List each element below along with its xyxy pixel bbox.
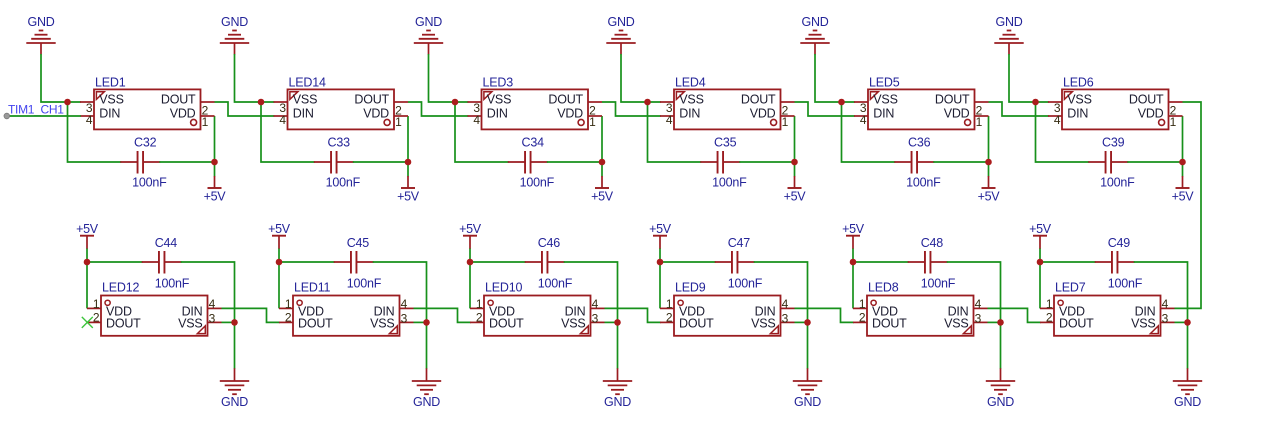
- pin 3 VSS of LED5: [854, 92, 898, 115]
- svg-text:2: 2: [93, 310, 100, 324]
- svg-text:100nF: 100nF: [906, 176, 941, 190]
- svg-text:GND: GND: [604, 395, 631, 409]
- IC LED14 body: [288, 89, 395, 129]
- svg-text:1: 1: [782, 115, 789, 129]
- svg-text:100nF: 100nF: [326, 176, 361, 190]
- wire +5V node to C49 left lead: [1040, 261, 1096, 263]
- svg-text:1: 1: [1046, 297, 1053, 311]
- pin 4 DIN of LED12: [182, 297, 222, 318]
- svg-text:DOUT: DOUT: [935, 92, 970, 106]
- wire GND net down to C39 left lead: [1036, 102, 1090, 162]
- svg-text:VDD: VDD: [750, 106, 776, 120]
- wire C33 right lead to +5V node: [353, 161, 408, 163]
- svg-text:100nF: 100nF: [1108, 277, 1143, 291]
- capacitor C32: [120, 151, 160, 174]
- svg-text:DIN: DIN: [873, 106, 894, 120]
- svg-text:VDD: VDD: [170, 106, 196, 120]
- svg-text:C44: C44: [155, 236, 178, 250]
- svg-text:+5V: +5V: [842, 222, 865, 236]
- capacitor C34: [508, 151, 548, 174]
- svg-text:VSS: VSS: [873, 92, 897, 106]
- pin 3 VSS of LED8: [944, 311, 987, 330]
- svg-text:4: 4: [1162, 297, 1169, 311]
- pin 4 DIN of LED1: [80, 106, 120, 127]
- wire GND net down to C35 left lead: [648, 102, 702, 162]
- pin 2 DOUT of LED11: [279, 310, 333, 330]
- svg-text:+5V: +5V: [591, 189, 614, 203]
- svg-text:2: 2: [1046, 310, 1053, 324]
- power symbol +5V (LED8 unit): [842, 222, 865, 249]
- wire VDD pin of LED3 down to +5V node: [601, 116, 603, 177]
- IC LED12 body: [101, 296, 208, 336]
- svg-text:+5V: +5V: [1029, 222, 1052, 236]
- svg-text:+5V: +5V: [649, 222, 672, 236]
- svg-text:VSS: VSS: [293, 92, 317, 106]
- svg-text:LED8: LED8: [868, 281, 899, 295]
- svg-text:GND: GND: [221, 395, 248, 409]
- power symbol +5V (LED14 unit): [397, 176, 420, 203]
- pin 4 DIN of LED3: [468, 106, 508, 127]
- wire +5V node to C44 left lead: [87, 261, 143, 263]
- power symbol +5V (LED10 unit): [459, 222, 482, 249]
- svg-text:LED5: LED5: [869, 76, 900, 90]
- junction GND net at LED9: [804, 319, 811, 326]
- svg-text:C33: C33: [328, 136, 351, 150]
- junction GND net at LED5: [838, 99, 845, 106]
- svg-text:100nF: 100nF: [921, 277, 956, 291]
- wire DOUT LED4 to DIN LED5: [795, 102, 855, 116]
- wire DOUT LED6 down to DIN LED7: [1175, 102, 1202, 308]
- pin 2 DOUT of LED3: [548, 92, 602, 117]
- wire GND junction down to ground symbol (LED7): [1187, 322, 1189, 368]
- svg-text:GND: GND: [987, 395, 1014, 409]
- pin 1 VDD of LED10: [470, 297, 515, 318]
- pin 3 VSS of LED6: [1048, 92, 1092, 115]
- junction GND net at LED1: [64, 99, 71, 106]
- pin 4 DIN of LED11: [374, 297, 414, 318]
- pin 2 DOUT of LED12: [87, 310, 141, 330]
- svg-text:DOUT: DOUT: [106, 317, 141, 331]
- power symbol GND (LED11 unit): [412, 368, 441, 409]
- svg-text:+5V: +5V: [459, 222, 482, 236]
- pin 4 DIN of LED6: [1048, 106, 1088, 127]
- svg-text:VSS: VSS: [1131, 317, 1155, 331]
- svg-text:1: 1: [93, 297, 100, 311]
- svg-text:GND: GND: [221, 15, 248, 29]
- pin 1 VDD of LED14: [363, 106, 408, 129]
- svg-text:+5V: +5V: [1172, 189, 1195, 203]
- pin 2 DOUT of LED6: [1129, 92, 1183, 117]
- svg-text:3: 3: [975, 311, 982, 325]
- power symbol GND (LED3 unit): [414, 15, 443, 55]
- wire GND to VSS pin of LED1: [41, 54, 81, 102]
- svg-text:TIM1_CH1: TIM1_CH1: [8, 102, 64, 116]
- svg-text:2: 2: [859, 310, 866, 324]
- wire DOUT LED7 to DIN LED8: [988, 308, 1041, 322]
- svg-text:C36: C36: [908, 136, 931, 150]
- svg-text:VSS: VSS: [751, 317, 775, 331]
- wire GND junction down to ground symbol (LED8): [1000, 322, 1002, 368]
- svg-text:VSS: VSS: [99, 92, 123, 106]
- wire GND to VSS pin of LED4: [621, 54, 661, 102]
- wire VSS pin of LED9 to GND junction: [795, 321, 808, 323]
- junction +5V node at LED5: [985, 159, 992, 166]
- svg-text:100nF: 100nF: [1100, 176, 1135, 190]
- svg-text:GND: GND: [413, 395, 440, 409]
- wire C45 right lead down to VSS junction: [373, 262, 427, 322]
- wire DOUT LED9 to DIN LED10: [605, 308, 661, 322]
- wire C32 right lead to +5V node: [159, 161, 214, 163]
- pin 2 DOUT of LED4: [741, 92, 795, 117]
- svg-text:GND: GND: [415, 15, 442, 29]
- pin 2 DOUT of LED9: [660, 310, 714, 330]
- svg-text:GND: GND: [802, 15, 829, 29]
- pin 3 VSS of LED9: [751, 311, 794, 330]
- svg-text:1: 1: [395, 115, 402, 129]
- svg-text:4: 4: [209, 297, 216, 311]
- svg-text:LED12: LED12: [102, 281, 139, 295]
- capacitor C33: [314, 151, 354, 174]
- svg-text:LED10: LED10: [485, 281, 522, 295]
- pin 2 DOUT of LED5: [935, 92, 989, 117]
- power symbol GND (LED6 unit): [994, 15, 1023, 55]
- pin 1 VDD of LED11: [279, 297, 324, 318]
- svg-text:100nF: 100nF: [712, 176, 747, 190]
- svg-text:C48: C48: [921, 236, 944, 250]
- junction GND net at LED7: [1184, 319, 1191, 326]
- wire DOUT LED8 to DIN LED9: [795, 308, 854, 322]
- wire VSS pin of LED8 to GND junction: [988, 321, 1001, 323]
- pin 1 VDD of LED1: [170, 106, 215, 129]
- svg-text:DOUT: DOUT: [679, 317, 714, 331]
- wire DOUT LED3 to DIN LED4: [602, 102, 661, 116]
- svg-text:4: 4: [86, 113, 93, 127]
- svg-text:1: 1: [859, 297, 866, 311]
- svg-text:DOUT: DOUT: [298, 317, 333, 331]
- wire GND junction down to ground symbol (LED11): [426, 322, 428, 368]
- svg-text:LED7: LED7: [1055, 281, 1086, 295]
- wire GND to VSS pin of LED5: [815, 54, 855, 102]
- svg-text:100nF: 100nF: [347, 277, 382, 291]
- power symbol GND (LED9 unit): [793, 368, 822, 409]
- capacitor C45: [334, 251, 374, 274]
- power symbol +5V (LED7 unit): [1029, 222, 1052, 249]
- IC LED8 body: [867, 296, 974, 336]
- svg-text:4: 4: [860, 113, 867, 127]
- IC LED1 body: [94, 89, 201, 129]
- wire +5V node to C48 left lead: [853, 261, 909, 263]
- svg-text:DOUT: DOUT: [548, 92, 583, 106]
- svg-text:DOUT: DOUT: [1129, 92, 1164, 106]
- capacitor C47: [715, 251, 755, 274]
- svg-text:VSS: VSS: [487, 92, 511, 106]
- wire +5V node down to VDD pin of LED7: [1039, 249, 1041, 309]
- svg-text:LED11: LED11: [294, 281, 331, 295]
- wire C44 right lead down to VSS junction: [181, 262, 235, 322]
- svg-text:C35: C35: [714, 136, 737, 150]
- svg-text:DIN: DIN: [293, 106, 314, 120]
- junction +5V node at LED6: [1179, 159, 1186, 166]
- svg-text:C47: C47: [728, 236, 751, 250]
- svg-text:+5V: +5V: [978, 189, 1001, 203]
- unconnected wire endpoint: [4, 113, 10, 119]
- svg-text:100nF: 100nF: [155, 277, 190, 291]
- capacitor C44: [142, 251, 182, 274]
- svg-text:GND: GND: [608, 15, 635, 29]
- svg-text:C45: C45: [347, 236, 370, 250]
- svg-text:VDD: VDD: [944, 106, 970, 120]
- svg-text:VSS: VSS: [178, 317, 202, 331]
- svg-text:4: 4: [592, 297, 599, 311]
- junction +5V node at LED12: [84, 259, 91, 266]
- svg-text:DOUT: DOUT: [1059, 317, 1094, 331]
- wire +5V node down to VDD pin of LED12: [86, 249, 88, 309]
- svg-text:100nF: 100nF: [132, 176, 167, 190]
- power symbol +5V (LED5 unit): [978, 176, 1001, 203]
- power symbol GND (LED14 unit): [220, 15, 249, 55]
- IC LED4 body: [674, 89, 781, 129]
- capacitor C46: [525, 251, 565, 274]
- wire C34 right lead to +5V node: [547, 161, 602, 163]
- svg-text:+5V: +5V: [204, 189, 227, 203]
- svg-text:VSS: VSS: [561, 317, 585, 331]
- wire DOUT LED10 to DIN LED11: [414, 308, 471, 322]
- svg-text:VSS: VSS: [1067, 92, 1091, 106]
- svg-text:LED3: LED3: [483, 76, 514, 90]
- svg-text:2: 2: [476, 310, 483, 324]
- power symbol GND (LED4 unit): [606, 15, 635, 55]
- svg-text:+5V: +5V: [268, 222, 291, 236]
- pin 1 VDD of LED7: [1040, 297, 1085, 318]
- pin 1 VDD of LED3: [557, 106, 602, 129]
- wire TIM1_CH1 to DIN pin of LED1: [7, 115, 81, 117]
- svg-text:VSS: VSS: [944, 317, 968, 331]
- wire GND junction down to ground symbol (LED10): [617, 322, 619, 368]
- power symbol GND (LED10 unit): [603, 368, 632, 409]
- junction +5V node at LED10: [467, 259, 474, 266]
- junction +5V node at LED1: [211, 159, 218, 166]
- svg-text:VSS: VSS: [679, 92, 703, 106]
- power symbol GND (LED8 unit): [986, 368, 1015, 409]
- IC LED10 body: [484, 296, 591, 336]
- svg-text:3: 3: [592, 311, 599, 325]
- svg-text:2: 2: [285, 310, 292, 324]
- capacitor C36: [894, 151, 934, 174]
- capacitor C39: [1088, 151, 1128, 174]
- pin 3 VSS of LED14: [274, 92, 318, 115]
- power symbol +5V (LED3 unit): [591, 176, 614, 203]
- junction GND net at LED4: [644, 99, 651, 106]
- pin 2 DOUT of LED8: [853, 310, 907, 330]
- pin 4 DIN of LED7: [1135, 297, 1175, 318]
- svg-text:DOUT: DOUT: [872, 317, 907, 331]
- svg-text:LED6: LED6: [1063, 76, 1094, 90]
- svg-text:4: 4: [473, 113, 480, 127]
- junction +5V node at LED3: [599, 159, 606, 166]
- svg-text:1: 1: [202, 115, 209, 129]
- wire +5V node down to VDD pin of LED10: [469, 249, 471, 309]
- svg-text:VSS: VSS: [370, 317, 394, 331]
- pin 3 VSS of LED1: [80, 92, 124, 115]
- junction GND net at LED3: [452, 99, 459, 106]
- wire DOUT LED14 to DIN LED3: [408, 102, 468, 116]
- junction GND net at LED11: [423, 319, 430, 326]
- svg-text:DOUT: DOUT: [741, 92, 776, 106]
- wire +5V node down to VDD pin of LED8: [852, 249, 854, 309]
- IC LED11 body: [293, 296, 400, 336]
- svg-text:+5V: +5V: [76, 222, 99, 236]
- wire C47 right lead down to VSS junction: [754, 262, 808, 322]
- power symbol +5V (LED11 unit): [268, 222, 291, 249]
- pin 4 DIN of LED10: [565, 297, 605, 318]
- junction GND net at LED12: [231, 319, 238, 326]
- svg-text:+5V: +5V: [397, 189, 420, 203]
- pin 2 DOUT of LED7: [1040, 310, 1094, 330]
- wire C48 right lead down to VSS junction: [947, 262, 1001, 322]
- svg-text:1: 1: [589, 115, 596, 129]
- wire VSS pin of LED10 to GND junction: [605, 321, 618, 323]
- pin 4 DIN of LED8: [948, 297, 988, 318]
- svg-text:GND: GND: [1174, 395, 1201, 409]
- svg-text:VDD: VDD: [363, 106, 389, 120]
- svg-text:4: 4: [975, 297, 982, 311]
- svg-text:1: 1: [285, 297, 292, 311]
- junction GND net at LED8: [997, 319, 1004, 326]
- power symbol GND (LED7 unit): [1173, 368, 1202, 409]
- pin 3 VSS of LED12: [178, 311, 221, 330]
- junction +5V node at LED7: [1037, 259, 1044, 266]
- wire GND to VSS pin of LED3: [429, 54, 469, 102]
- power symbol GND (LED5 unit): [800, 15, 829, 55]
- wire GND junction down to ground symbol (LED9): [807, 322, 809, 368]
- wire C46 right lead down to VSS junction: [564, 262, 618, 322]
- svg-text:4: 4: [782, 297, 789, 311]
- junction +5V node at LED14: [405, 159, 412, 166]
- wire C39 right lead to +5V node: [1127, 161, 1182, 163]
- wire VSS pin of LED12 to GND junction: [222, 321, 235, 323]
- svg-text:100nF: 100nF: [538, 277, 573, 291]
- svg-text:1: 1: [666, 297, 673, 311]
- wire VDD pin of LED1 down to +5V node: [214, 116, 216, 177]
- svg-text:VDD: VDD: [557, 106, 583, 120]
- pin 1 VDD of LED6: [1138, 106, 1183, 129]
- power symbol GND (LED12 unit): [220, 368, 249, 409]
- wire +5V node down to VDD pin of LED9: [659, 249, 661, 309]
- power symbol +5V (LED9 unit): [649, 222, 672, 249]
- wire GND junction down to ground symbol (LED12): [234, 322, 236, 368]
- svg-text:3: 3: [209, 311, 216, 325]
- wire +5V node to C47 left lead: [660, 261, 716, 263]
- pin 2 DOUT of LED14: [354, 92, 408, 117]
- svg-text:3: 3: [1162, 311, 1169, 325]
- svg-text:4: 4: [1054, 113, 1061, 127]
- junction GND net at LED10: [614, 319, 621, 326]
- capacitor C48: [908, 251, 948, 274]
- pin 4 DIN of LED5: [854, 106, 894, 127]
- wire C36 right lead to +5V node: [933, 161, 988, 163]
- wire VSS pin of LED11 to GND junction: [414, 321, 427, 323]
- IC LED3 body: [482, 89, 589, 129]
- IC LED6 body: [1062, 89, 1169, 129]
- wire DOUT LED1 to DIN LED14: [215, 102, 275, 116]
- power symbol +5V (LED4 unit): [784, 176, 807, 203]
- pin 3 VSS of LED11: [370, 311, 413, 330]
- svg-text:DIN: DIN: [487, 106, 508, 120]
- svg-text:4: 4: [666, 113, 673, 127]
- svg-text:DOUT: DOUT: [161, 92, 196, 106]
- pin 1 VDD of LED4: [750, 106, 795, 129]
- pin 1 VDD of LED12: [87, 297, 132, 318]
- pin 3 VSS of LED4: [660, 92, 704, 115]
- wire +5V node down to VDD pin of LED11: [278, 249, 280, 309]
- junction +5V node at LED4: [791, 159, 798, 166]
- svg-text:2: 2: [666, 310, 673, 324]
- capacitor C49: [1095, 251, 1135, 274]
- wire +5V node to C46 left lead: [470, 261, 526, 263]
- svg-text:3: 3: [401, 311, 408, 325]
- power symbol GND (LED1 unit): [26, 15, 55, 55]
- wire GND net down to C33 left lead: [261, 102, 315, 162]
- svg-text:C49: C49: [1108, 236, 1131, 250]
- pin 3 VSS of LED7: [1131, 311, 1174, 330]
- pin 3 VSS of LED10: [561, 311, 604, 330]
- IC LED5 body: [868, 89, 975, 129]
- svg-text:DIN: DIN: [1067, 106, 1088, 120]
- no-connect flag on DOUT of LED12: [82, 317, 93, 328]
- wire GND net down to C34 left lead: [455, 102, 509, 162]
- pin 1 VDD of LED5: [944, 106, 989, 129]
- svg-text:C39: C39: [1102, 136, 1125, 150]
- svg-text:100nF: 100nF: [728, 277, 763, 291]
- svg-text:C34: C34: [522, 136, 545, 150]
- junction +5V node at LED11: [276, 259, 283, 266]
- wire VDD pin of LED5 down to +5V node: [988, 116, 990, 177]
- wire +5V node to C45 left lead: [279, 261, 335, 263]
- svg-text:+5V: +5V: [784, 189, 807, 203]
- IC LED7 body: [1054, 296, 1161, 336]
- svg-text:LED4: LED4: [675, 76, 706, 90]
- wire VSS pin of LED7 to GND junction: [1175, 321, 1188, 323]
- power symbol +5V (LED6 unit): [1172, 176, 1195, 203]
- svg-text:C46: C46: [538, 236, 561, 250]
- wire VDD pin of LED6 down to +5V node: [1182, 116, 1184, 177]
- svg-text:VDD: VDD: [1138, 106, 1164, 120]
- svg-text:4: 4: [401, 297, 408, 311]
- svg-text:3: 3: [782, 311, 789, 325]
- pin 3 VSS of LED3: [468, 92, 512, 115]
- svg-text:DIN: DIN: [679, 106, 700, 120]
- wire VDD pin of LED4 down to +5V node: [794, 116, 796, 177]
- IC LED9 body: [674, 296, 781, 336]
- pin 2 DOUT of LED1: [161, 92, 215, 117]
- junction +5V node at LED9: [657, 259, 664, 266]
- svg-text:C32: C32: [134, 136, 157, 150]
- pin 2 DOUT of LED10: [470, 310, 524, 330]
- wire GND to VSS pin of LED6: [1009, 54, 1049, 102]
- pin 1 VDD of LED8: [853, 297, 898, 318]
- pin 4 DIN of LED4: [660, 106, 700, 127]
- wire DOUT LED5 to DIN LED6: [989, 102, 1049, 116]
- svg-text:LED9: LED9: [675, 281, 706, 295]
- svg-text:1: 1: [1170, 115, 1177, 129]
- svg-text:1: 1: [476, 297, 483, 311]
- junction GND net at LED14: [258, 99, 265, 106]
- wire GND net down to C32 left lead: [68, 102, 122, 162]
- svg-text:GND: GND: [794, 395, 821, 409]
- power symbol +5V (LED12 unit): [76, 222, 99, 249]
- svg-text:1: 1: [976, 115, 983, 129]
- svg-text:GND: GND: [28, 15, 55, 29]
